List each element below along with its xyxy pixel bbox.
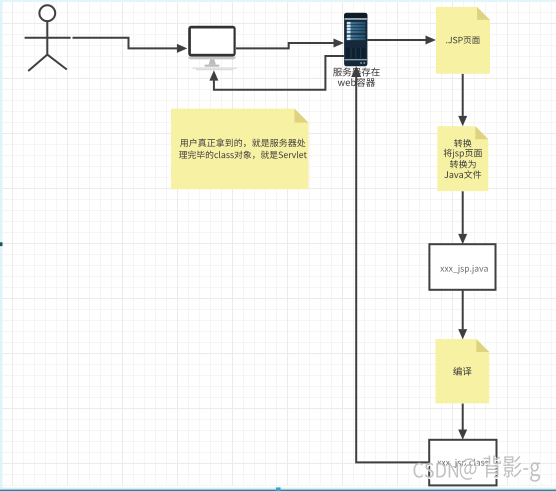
box xxx_jsp.class (429, 440, 496, 486)
canvas top edge strip (0, 0, 556, 2)
note JSP页面 (436, 7, 490, 74)
monitor (client computer) (188, 26, 237, 70)
bottom scrollbar thumb (276, 487, 281, 491)
wire server to JSP note (367, 36, 436, 45)
bottom light scrollbar track (0, 488, 556, 490)
arrow java box to compile note (458, 290, 467, 339)
arrow JSP note to convert note (458, 74, 467, 126)
canvas left edge strip (0, 0, 3, 491)
note 转换/将jsp页面/转换为/Java文件 (437, 126, 488, 191)
arrow convert note to java box (458, 191, 467, 244)
wire server back to monitor (response) (209, 56, 344, 90)
wire class box back up to server (351, 66, 429, 462)
big note 用户真正拿到的... (171, 109, 309, 190)
box xxx_jsp.java (429, 244, 495, 290)
watermark CSDN @背影-g (414, 456, 542, 484)
wire monitor to server (236, 39, 344, 49)
actor (stick figure) (25, 5, 71, 71)
arrow compile note to class box (458, 404, 467, 440)
server tower (344, 13, 367, 66)
wire actor to monitor (73, 38, 188, 53)
note 编译 (436, 339, 490, 403)
bottom dark blue edge (0, 490, 556, 491)
server label 服务器存在 web容器 (333, 68, 380, 87)
left scroll marker (0, 242, 3, 246)
